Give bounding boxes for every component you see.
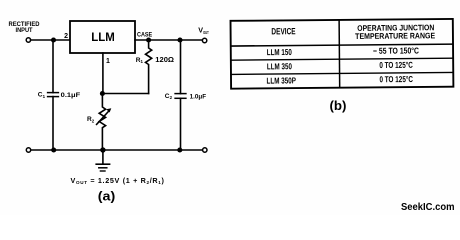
svg-text:INPUT: INPUT: [16, 27, 33, 34]
wire C1 to bottom rail: [52, 97, 54, 150]
wire CASE pin to VOUT: [135, 39, 202, 41]
svg-text:CASE: CASE: [137, 33, 152, 39]
resistor R1: [146, 42, 152, 94]
svg-text:R2: R2: [87, 116, 95, 123]
svg-text:LLM 350P: LLM 350P: [266, 75, 296, 85]
wire input terminal to LLM pin 2: [31, 39, 70, 41]
svg-text:LLM 350: LLM 350: [267, 61, 292, 71]
svg-text:0.1μF: 0.1μF: [61, 92, 80, 99]
table outer border: [231, 19, 454, 89]
node VOUT terminal: [202, 38, 206, 42]
wire C2 to bottom rail: [180, 98, 182, 150]
capacitor C1: [48, 92, 59, 94]
table header separator: [231, 44, 453, 46]
node C2 bottom junction: [177, 147, 182, 152]
svg-text:(a): (a): [98, 190, 116, 204]
node C2 junction top: [177, 37, 182, 42]
table row line 3: [231, 72, 453, 74]
svg-text:0 TO 125°C: 0 TO 125°C: [379, 60, 413, 70]
svg-text:VOUT: VOUT: [198, 26, 209, 35]
svg-text:C2: C2: [165, 93, 173, 100]
svg-text:C1: C1: [38, 92, 46, 99]
svg-text:− 55 TO 150°C: − 55 TO 150°C: [373, 45, 419, 55]
node bottom-left terminal: [26, 148, 30, 152]
svg-text:120Ω: 120Ω: [155, 55, 174, 64]
wire LLM pin 1 down: [102, 53, 104, 94]
wire R1 bottom to pin1 junction: [102, 93, 148, 95]
svg-text:1: 1: [106, 58, 110, 65]
node RECTIFIED INPUT terminal: [26, 38, 30, 42]
table (b): [231, 19, 454, 89]
ground: [102, 150, 104, 164]
node pin1 junction: [100, 91, 105, 96]
wire R2 arrow: [97, 112, 109, 125]
svg-text:LLM 150: LLM 150: [267, 47, 292, 57]
svg-text:VOUT = 1.25V (1 + R2/R1): VOUT = 1.25V (1 + R2/R1): [71, 176, 165, 185]
svg-text:R1: R1: [136, 57, 144, 64]
wire input junction down to C1: [52, 40, 54, 93]
svg-text:0 TO 125°C: 0 TO 125°C: [379, 74, 413, 84]
node input junction: [51, 37, 56, 42]
node bottom-right terminal: [203, 148, 207, 152]
svg-text:LLM: LLM: [91, 30, 115, 44]
wire C2 branch down: [180, 40, 182, 94]
capacitor C2: [175, 93, 186, 95]
table column divider: [338, 20, 341, 88]
resistor R2 potentiometer: [99, 94, 105, 151]
svg-text:TEMPERATURE RANGE: TEMPERATURE RANGE: [355, 31, 436, 41]
svg-text:SeekIC.com: SeekIC.com: [401, 202, 455, 213]
svg-text:DEVICE: DEVICE: [271, 26, 295, 36]
wire bottom rail: [31, 149, 203, 151]
node C1 bottom junction: [51, 147, 56, 152]
svg-text:(b): (b): [330, 99, 347, 113]
table row line 2: [231, 58, 453, 60]
regulator U1 LLM: [70, 21, 135, 53]
node ground junction: [100, 147, 105, 152]
svg-text:1.0μF: 1.0μF: [190, 93, 207, 100]
node CASE junction: [146, 37, 151, 42]
svg-text:2: 2: [64, 33, 68, 40]
